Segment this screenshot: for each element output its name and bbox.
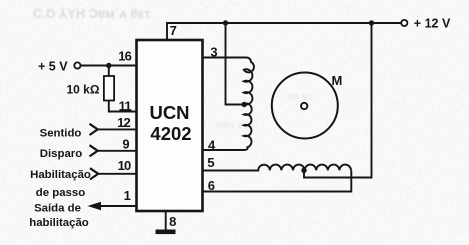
wire pin 10 (98, 173, 136, 175)
terminal +12V open circle (401, 20, 407, 26)
svg-text:+ 12 V: + 12 V (414, 16, 451, 30)
motor hub circle (301, 103, 307, 109)
ground (156, 230, 176, 235)
svg-text:10: 10 (118, 158, 131, 173)
node center tap L1 (242, 102, 247, 107)
svg-text:11: 11 (119, 99, 132, 114)
svg-text:Saída de: Saída de (34, 203, 81, 215)
svg-text:4: 4 (208, 138, 216, 153)
node C resistor junction (106, 63, 111, 68)
wire pin 3 and winding L1 (vertical coil) (203, 58, 254, 151)
wire pin 1 output (92, 205, 137, 207)
wire pin 5 and winding L2 (horizontal coil) (203, 165, 351, 171)
node A on top rail (223, 20, 228, 25)
svg-text:habilitação: habilitação (29, 217, 89, 229)
input arrow Disparo pin 9 (90, 145, 98, 156)
svg-text:16: 16 (118, 49, 131, 64)
wire pin 8 stub (165, 211, 167, 230)
svg-text:C.D ⅄YH Ɔɐᴍˊᴀ 8ᴇᴛ: C.D ⅄YH Ɔɐᴍˊᴀ 8ᴇᴛ (33, 6, 151, 21)
IC U1 UCN4202 body (137, 40, 203, 211)
svg-text:8: 8 (169, 214, 176, 229)
svg-text:Habilitação: Habilitação (30, 169, 91, 181)
terminal +5V open circle (74, 62, 80, 68)
svg-text:Disparo: Disparo (40, 148, 82, 160)
svg-text:UCN: UCN (149, 102, 189, 123)
svg-text:12: 12 (117, 115, 130, 130)
input arrow Habilitacao pin 10 (90, 168, 98, 179)
wire pin 6 to right end of L2 (203, 170, 351, 191)
wire from node B down to winding L2 center tap (304, 23, 372, 178)
svg-text:10 kΩ: 10 kΩ (67, 82, 100, 96)
svg-text:1: 1 (124, 188, 131, 203)
wire from node A down to winding L1 center tap (226, 23, 242, 105)
wire +5V to pin 16 (81, 65, 137, 67)
wire pin7 stub and +12V top rail (167, 23, 401, 40)
wire pin 12 (98, 128, 137, 130)
watermark bleed-through middle (215, 91, 314, 131)
node center tap L2 (301, 168, 306, 173)
svg-text:+ 5 V: + 5 V (38, 60, 68, 74)
svg-text:Sentido: Sentido (40, 127, 82, 139)
svg-text:de passo: de passo (36, 187, 85, 199)
resistor R1 10k body (104, 66, 137, 112)
svg-text:7: 7 (170, 23, 177, 38)
node B on top rail (369, 20, 374, 25)
svg-text:ᴏɹ ɐᴛ: ᴏɹ ɐᴛ (288, 91, 314, 103)
svg-text:4202: 4202 (150, 123, 191, 144)
input arrow Sentido pin 12 (90, 124, 98, 135)
svg-text:9: 9 (122, 137, 129, 152)
watermark bleed-through top (33, 6, 151, 21)
svg-text:5: 5 (207, 155, 214, 170)
motor M outer circle (272, 73, 338, 139)
wire pin 9 (98, 150, 137, 152)
svg-text:M: M (332, 73, 343, 88)
output arrowhead Saida (88, 202, 102, 210)
